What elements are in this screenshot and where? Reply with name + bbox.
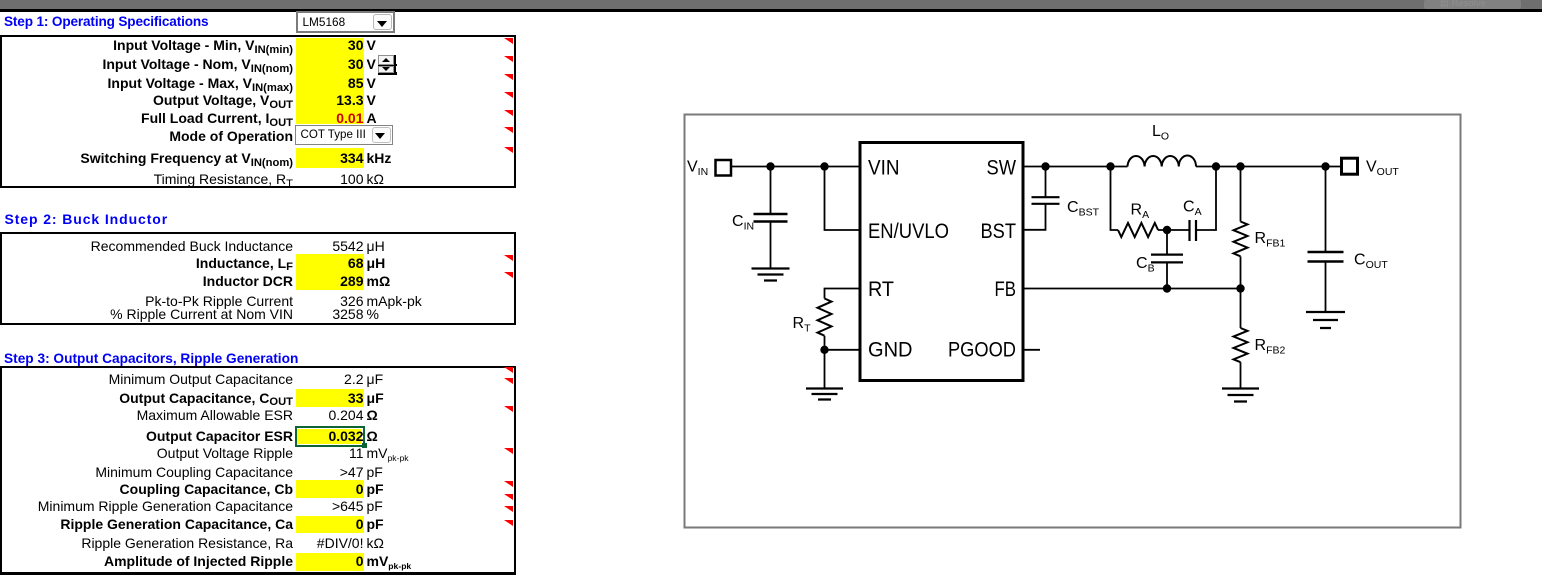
svg-text:VIN: VIN bbox=[868, 157, 900, 180]
yellow block step2 bbox=[296, 254, 365, 290]
svg-text:SW: SW bbox=[987, 157, 1017, 180]
wire RT pin bbox=[825, 289, 861, 299]
svg-text:CA: CA bbox=[1183, 199, 1202, 219]
node junction RFB-FB bbox=[1236, 284, 1244, 292]
yellow block step1 B bbox=[296, 148, 365, 168]
node VIN terminal bbox=[716, 160, 732, 176]
svg-text:VOUT: VOUT bbox=[1366, 159, 1399, 179]
toolbar patch top-right bbox=[1424, 0, 1521, 9]
heading step 2 bbox=[5, 210, 169, 228]
mode dropdown COT Type III bbox=[295, 125, 393, 146]
svg-text:CB: CB bbox=[1136, 255, 1155, 275]
box 1 bbox=[0, 35, 516, 188]
svg-text:CBST: CBST bbox=[1067, 199, 1100, 219]
wire RT to GND node bbox=[824, 336, 826, 389]
box 2 bbox=[0, 232, 516, 325]
svg-text:LO: LO bbox=[1152, 123, 1169, 143]
schematic frame bbox=[685, 115, 1461, 528]
svg-text:GND: GND bbox=[868, 338, 913, 361]
node VOUT terminal bbox=[1342, 158, 1358, 174]
inductor LO bbox=[1128, 155, 1197, 166]
resistor RA bbox=[1118, 223, 1158, 237]
svg-text:VIN: VIN bbox=[687, 159, 708, 179]
rows step 1 bbox=[0, 36, 520, 54]
svg-text:RT: RT bbox=[793, 315, 812, 335]
wire EN/UVLO bbox=[825, 167, 861, 231]
resistor RFB1 bbox=[1240, 167, 1242, 222]
svg-text:BST: BST bbox=[981, 220, 1017, 243]
heading step 3 bbox=[4, 350, 298, 368]
op-amp U1 (LM5168 IC body) bbox=[860, 143, 1023, 381]
ground under RFB2 bbox=[1222, 389, 1259, 402]
capacitor COUT bbox=[1325, 167, 1327, 252]
resistor RFB2 bbox=[1240, 289, 1242, 329]
resistor RT bbox=[818, 299, 832, 336]
part dropdown LM5168 bbox=[296, 11, 396, 34]
svg-text:RFB1: RFB1 bbox=[1255, 230, 1286, 250]
svg-text:EN/UVLO: EN/UVLO bbox=[868, 220, 949, 243]
node junction RFB1 top bbox=[1236, 162, 1244, 170]
svg-text:CIN: CIN bbox=[732, 213, 754, 233]
top window bar bbox=[0, 0, 1542, 9]
svg-text:RFB2: RFB2 bbox=[1255, 337, 1286, 357]
node junction LO left bbox=[1106, 162, 1114, 170]
capacitor CBST bbox=[1045, 167, 1047, 197]
spinner bbox=[378, 55, 397, 75]
node junction CB-FB bbox=[1163, 284, 1171, 292]
wire VIN rail bbox=[731, 166, 860, 168]
fill handle bbox=[362, 443, 367, 448]
box 3 bbox=[0, 366, 516, 575]
node junction RA-CA-CB bbox=[1163, 226, 1171, 234]
ground under COUT bbox=[1306, 312, 1345, 328]
node junction CBST bbox=[1041, 162, 1049, 170]
wire RA to CA bbox=[1158, 229, 1189, 231]
yellow block step1 A bbox=[296, 38, 365, 124]
comment triangles box2 bbox=[504, 255, 513, 261]
wire LO left branch down bbox=[1111, 167, 1119, 231]
capacitor CB bbox=[1166, 230, 1168, 254]
ground under RT bbox=[806, 389, 843, 400]
black separator line bbox=[0, 9, 1542, 12]
svg-text:FB: FB bbox=[995, 278, 1017, 301]
ground under CIN bbox=[752, 269, 790, 281]
comment triangles box1 bbox=[504, 38, 513, 44]
wire PGOOD stub bbox=[1023, 349, 1040, 351]
svg-text:COUT: COUT bbox=[1354, 252, 1388, 272]
wire GND pin bbox=[825, 349, 861, 351]
yellow cells step3 bbox=[296, 389, 365, 407]
svg-text:RT: RT bbox=[868, 278, 894, 301]
node junction EN bbox=[820, 162, 828, 170]
comment triangles box3 bbox=[504, 367, 513, 373]
selection border around Output Capacitor ESR cell bbox=[295, 426, 365, 446]
node junction GND bbox=[820, 346, 828, 354]
node junction CIN bbox=[766, 162, 774, 170]
wire SW rail bbox=[1023, 166, 1342, 168]
heading step 1 bbox=[4, 13, 208, 31]
capacitor CA bbox=[1190, 220, 1197, 241]
capacitor CIN bbox=[770, 167, 772, 214]
wire FB rail bbox=[1023, 288, 1241, 290]
svg-text:RA: RA bbox=[1131, 202, 1150, 222]
svg-text:PGOOD: PGOOD bbox=[948, 338, 1016, 361]
node junction LO right bbox=[1212, 162, 1220, 170]
node junction COUT bbox=[1321, 162, 1329, 170]
